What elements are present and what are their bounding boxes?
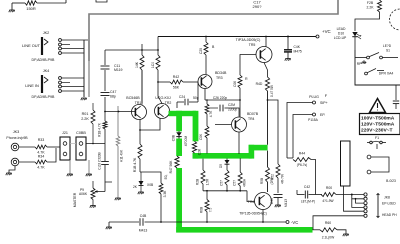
wire C10 gnd xyxy=(287,53,289,59)
gray bus vertical left xyxy=(88,40,90,97)
svg-text:TR5: TR5 xyxy=(249,43,256,47)
jack pin2 xyxy=(364,197,367,200)
ground line-in bus xyxy=(81,98,87,100)
pin 2 xyxy=(59,81,62,84)
wire to J21 xyxy=(47,146,60,148)
resistor R50 xyxy=(205,37,207,43)
node rail TR5 xyxy=(265,36,267,38)
svg-text:LEAD: LEAD xyxy=(337,27,346,31)
ground C35 xyxy=(277,198,279,205)
J21 pin B xyxy=(63,152,67,156)
wire cap drop xyxy=(176,102,178,108)
svg-text:Phone-in/p9B: Phone-in/p9B xyxy=(6,136,28,140)
svg-text:JK4: JK4 xyxy=(43,69,50,73)
svg-text:J21: J21 xyxy=(62,131,68,135)
svg-text:C42: C42 xyxy=(304,185,310,189)
wire R60 left xyxy=(313,229,321,231)
node r40 xyxy=(157,49,159,51)
jack bracket xyxy=(377,194,379,218)
svg-text:RP: RP xyxy=(357,62,361,66)
ground C10 xyxy=(285,59,291,61)
svg-text:DP,AD9B-P9B: DP,AD9B-P9B xyxy=(32,95,56,99)
gray bus wire xyxy=(89,0,338,61)
svg-text:BC546B: BC546B xyxy=(126,96,140,100)
wire R52 down xyxy=(277,178,279,193)
svg-text:LCD-UP: LCD-UP xyxy=(334,36,347,40)
LED D10 xyxy=(352,32,357,37)
svg-text:D10: D10 xyxy=(338,32,344,36)
svg-text:EP.: EP. xyxy=(320,113,325,117)
resistor R01 xyxy=(91,110,95,124)
jack pin3 xyxy=(364,202,367,205)
svg-text:R33: R33 xyxy=(38,138,45,142)
diode D8 on green xyxy=(178,130,180,133)
svg-text:H11 49K: H11 49K xyxy=(120,149,124,162)
switch S2 xyxy=(365,72,368,75)
svg-text:R01: R01 xyxy=(82,112,89,116)
node rail C10 xyxy=(287,36,289,38)
switch S1 xyxy=(355,57,367,59)
svg-text:2.2K: 2.2K xyxy=(367,6,375,10)
svg-text:R34: R34 xyxy=(38,155,45,159)
wire bus down xyxy=(83,40,85,97)
wire rail riser xyxy=(157,37,159,51)
wire TR1 collector xyxy=(141,70,143,105)
svg-text:-VC: -VC xyxy=(291,220,298,225)
lamp dashed circle xyxy=(390,9,400,30)
svg-text:56K: 56K xyxy=(173,86,180,90)
node j2 xyxy=(355,198,357,200)
wire jp5 xyxy=(344,186,365,211)
pot wiper xyxy=(95,191,99,193)
transistor TR3 xyxy=(198,75,212,89)
voltage rating box xyxy=(360,114,400,135)
resistor R42 xyxy=(170,80,183,84)
svg-text:TIP3A-0D05(C): TIP3A-0D05(C) xyxy=(236,38,261,42)
svg-text:C06: C06 xyxy=(233,81,237,87)
mains terminal 1 xyxy=(367,155,371,159)
wire pin4 xyxy=(62,52,84,54)
gray drop C0BB xyxy=(88,160,90,174)
jack pin5 xyxy=(364,210,367,213)
svg-text:BD07B: BD07B xyxy=(247,112,259,116)
node bb1 xyxy=(206,190,208,192)
svg-text:100V~T500mA: 100V~T500mA xyxy=(361,116,395,122)
highlight green middle bar upper xyxy=(249,145,268,151)
wire wiper xyxy=(99,191,105,193)
pin 1 xyxy=(59,77,62,80)
terminal +VC xyxy=(316,35,319,38)
wire cap left xyxy=(177,101,184,103)
svg-text:JK2: JK2 xyxy=(43,31,50,35)
svg-text:B-0/23: B-0/23 xyxy=(386,179,396,183)
wire bottom up xyxy=(47,148,56,162)
highlight green left vertical xyxy=(176,111,182,132)
svg-text:M119: M119 xyxy=(114,68,123,72)
svg-text:M413: M413 xyxy=(139,229,148,233)
fuse F1 xyxy=(367,142,370,144)
svg-text:C35: C35 xyxy=(270,198,274,204)
node y82 xyxy=(157,81,159,83)
wire R45 down xyxy=(160,194,162,222)
wire TR3 emitter down xyxy=(197,82,199,102)
capacitor C32 xyxy=(101,162,109,165)
wire fuse down xyxy=(376,144,378,149)
wire cap right xyxy=(189,101,198,103)
capacitor C35 xyxy=(274,195,283,198)
svg-text:M475: M475 xyxy=(294,50,302,54)
svg-text:TR3: TR3 xyxy=(216,76,223,80)
highlight green step xyxy=(249,145,255,159)
svg-text:E0,: E0, xyxy=(164,174,168,179)
wire to ground xyxy=(11,3,13,10)
svg-text:R1B 4.7K: R1B 4.7K xyxy=(98,122,102,137)
svg-text:4700M: 4700M xyxy=(184,136,188,147)
wire to jack xyxy=(336,194,364,196)
svg-text:1C0: 1C0 xyxy=(151,62,155,68)
resistor R59 xyxy=(239,158,241,172)
wire col203 top xyxy=(202,159,204,170)
wire pin1 xyxy=(62,39,88,41)
wire F2B down xyxy=(355,12,380,31)
wire C0BB right xyxy=(86,143,105,145)
plug arrow 2 xyxy=(44,77,48,83)
resistor F2B xyxy=(378,0,382,12)
svg-text:TR6: TR6 xyxy=(248,200,255,204)
svg-text:68p: 68p xyxy=(110,95,116,99)
wire to TR6 base xyxy=(247,191,255,202)
svg-text:EP-L0ED: EP-L0ED xyxy=(382,202,396,206)
wire C42-R00 xyxy=(309,194,323,196)
connector C0BB box xyxy=(76,137,86,160)
resistor R52 xyxy=(276,164,280,178)
C0BB pin A xyxy=(79,142,83,146)
ground pot xyxy=(90,206,96,208)
svg-text:4R-7W: 4R-7W xyxy=(281,174,285,184)
svg-text:R0B: R0B xyxy=(200,207,204,213)
wire pin2 xyxy=(62,82,70,84)
pin 1 xyxy=(59,39,62,42)
svg-text:R44: R44 xyxy=(299,152,305,156)
gray drop J21 xyxy=(69,160,71,174)
wire to TR6 xyxy=(267,182,269,192)
wire pin2 xyxy=(62,44,70,46)
resistor R5B xyxy=(266,167,270,182)
node bb3 xyxy=(239,190,241,192)
svg-text:C0BB: C0BB xyxy=(76,131,86,135)
svg-text:14K: 14K xyxy=(135,61,139,68)
svg-text:M413: M413 xyxy=(284,199,288,207)
resistor R47 on green xyxy=(175,156,179,168)
svg-text:C47: C47 xyxy=(110,90,116,94)
wire C42 drop xyxy=(296,190,298,195)
resistor R60 xyxy=(320,228,337,232)
wire TR5 base xyxy=(240,55,256,76)
svg-text:X0B: X0B xyxy=(147,183,154,187)
wire EP xyxy=(293,115,313,159)
svg-text:LE?D: LE?D xyxy=(383,44,392,48)
connector J21 box xyxy=(60,137,70,160)
wire bias top xyxy=(206,100,208,104)
node base col xyxy=(104,111,106,113)
wire jp4 xyxy=(352,199,364,208)
wire pin4 xyxy=(62,90,84,92)
wire between boxes xyxy=(70,143,76,145)
svg-text:DP,AD9B-P9B: DP,AD9B-P9B xyxy=(32,58,56,62)
svg-text:DPR XA4: DPR XA4 xyxy=(379,72,394,76)
gray wire volume xyxy=(117,106,119,136)
ground volume xyxy=(115,198,121,200)
connector JK4 bar xyxy=(41,75,43,93)
stub right col xyxy=(105,181,112,183)
switch box xyxy=(355,50,400,85)
svg-text:0.47 5W: 0.47 5W xyxy=(270,85,274,97)
wire TR2 emitter xyxy=(140,118,160,130)
svg-text:4.7K: 4.7K xyxy=(209,110,213,117)
ground D7 xyxy=(138,192,144,194)
svg-text:1.5R: 1.5R xyxy=(206,178,210,185)
connector JK2 bar xyxy=(41,37,43,55)
wire TR2 collector xyxy=(157,82,159,96)
wire coupling xyxy=(105,49,158,51)
mains inlet xyxy=(395,85,397,100)
wire jp2 xyxy=(352,195,364,199)
svg-text:2.1L(0W: 2.1L(0W xyxy=(322,236,335,240)
wire C10 xyxy=(287,37,289,50)
wire TR5 collector xyxy=(265,37,267,48)
svg-text:120V~T500mA: 120V~T500mA xyxy=(361,122,395,128)
resistor R12 xyxy=(205,104,209,114)
ground sw xyxy=(363,60,365,62)
resistor 150R xyxy=(25,1,37,5)
diode D7 xyxy=(140,172,142,181)
svg-text:LINE IN: LINE IN xyxy=(25,83,39,88)
resistor R44h xyxy=(293,158,311,162)
wire TR1 emitter xyxy=(139,119,141,130)
transistor TR1 xyxy=(132,105,147,120)
svg-text:R4D: R4D xyxy=(256,82,263,86)
wire base bus xyxy=(203,190,247,192)
ground C4B left xyxy=(108,222,110,227)
box corner top xyxy=(96,0,107,2)
pin 4 xyxy=(59,52,62,55)
svg-text:C0K: C0K xyxy=(199,133,203,140)
wire c2m left xyxy=(207,107,218,109)
wire -VC xyxy=(145,221,287,223)
svg-text:MASTER: MASTER xyxy=(73,192,77,207)
resistor R1B col xyxy=(103,121,107,129)
svg-text:A06K: A06K xyxy=(79,192,88,196)
node j1 xyxy=(351,194,353,196)
resistor R61 xyxy=(206,191,208,200)
svg-text:+VC: +VC xyxy=(322,29,331,34)
pin 3 xyxy=(59,85,62,88)
svg-text:C4K: C4K xyxy=(294,45,301,49)
node207 xyxy=(206,221,208,223)
svg-text:F1: F1 xyxy=(375,136,379,140)
wire out 194 xyxy=(297,194,305,196)
ground C0BB xyxy=(86,174,92,176)
wire TR1 base xyxy=(105,111,135,113)
jack pin1 xyxy=(364,193,367,196)
capacitor C2M xyxy=(220,105,223,112)
capacitor C10 xyxy=(284,50,292,52)
svg-text:4R0A: 4R0A xyxy=(243,178,247,187)
svg-text:C4B: C4B xyxy=(140,214,147,218)
capacitor C47 68p xyxy=(101,93,110,96)
wire driver xyxy=(226,158,228,160)
svg-text:4?1-9W: 4?1-9W xyxy=(322,199,333,203)
wire top-left feedback xyxy=(12,2,25,4)
node r38 xyxy=(141,49,143,51)
wire TR6 emitter xyxy=(262,210,264,223)
svg-text:UCO-K0J: UCO-K0J xyxy=(155,96,171,100)
resistor R38 xyxy=(141,44,143,55)
transistor TR4 xyxy=(232,117,247,132)
resistor H11 gray xyxy=(116,136,120,146)
pin 2 xyxy=(59,43,62,46)
wire jp6 xyxy=(313,216,364,230)
svg-text:?.5: ?.5 xyxy=(209,208,213,213)
ground J21 xyxy=(67,174,73,176)
node rail TR3 xyxy=(205,36,207,38)
wire TR3 emitter down xyxy=(204,89,206,101)
transistor TR5 xyxy=(256,47,272,63)
node263 xyxy=(262,221,264,223)
svg-text:R52: R52 xyxy=(271,174,275,180)
svg-text:D5: D5 xyxy=(219,164,223,168)
wire R60 right xyxy=(337,230,346,234)
pin 3 xyxy=(59,47,62,50)
wire driver down xyxy=(226,185,228,191)
wire col203 down xyxy=(202,184,204,191)
wire bias mid xyxy=(206,114,208,126)
pin 4 xyxy=(59,90,62,93)
wire TR3 horizontal xyxy=(205,99,240,101)
svg-text:R1B 4.7K: R1B 4.7K xyxy=(133,157,137,172)
resistor R34 xyxy=(35,160,47,164)
svg-text:R00: R00 xyxy=(326,186,332,190)
svg-text:HEAD PH: HEAD PH xyxy=(382,213,397,217)
wire rail 278 xyxy=(268,100,279,164)
svg-text:C57: C57 xyxy=(220,180,224,186)
resistor R57 xyxy=(225,170,229,185)
node161 xyxy=(160,221,162,223)
svg-text:PLUG: PLUG xyxy=(309,95,319,99)
terminal -VC xyxy=(286,221,289,224)
svg-text:R47 56K: R47 56K xyxy=(169,160,173,174)
pot P9 xyxy=(91,188,95,200)
svg-text:4.7K: 4.7K xyxy=(37,166,45,170)
svg-text:TR4: TR4 xyxy=(248,117,255,121)
transistor TR2 xyxy=(155,104,170,119)
node c0bb xyxy=(92,143,94,145)
wire pin1 xyxy=(62,77,84,79)
plug arrow xyxy=(44,39,48,45)
resistor R45 xyxy=(159,183,163,194)
svg-text:290?: 290? xyxy=(253,4,263,9)
resistor R00h xyxy=(321,193,336,197)
svg-text:C24: C24 xyxy=(179,95,185,99)
highlight green top bar xyxy=(169,111,197,116)
C0BB pin B xyxy=(79,152,83,156)
wire base TR3 xyxy=(158,81,170,83)
svg-text:C20: C20 xyxy=(199,48,203,54)
svg-text:SIP+: SIP+ xyxy=(320,101,328,105)
highlight green right vertical xyxy=(193,111,199,142)
svg-text:JK3: JK3 xyxy=(13,130,20,134)
svg-text:LINE OUT: LINE OUT xyxy=(22,43,41,48)
capacitor C24 50p xyxy=(185,99,188,105)
svg-text:R60: R60 xyxy=(325,221,331,225)
svg-text:C0B: C0B xyxy=(172,134,176,141)
jack ground wire xyxy=(9,166,15,173)
ground jack xyxy=(6,173,12,175)
svg-text:R42: R42 xyxy=(173,75,179,79)
wire input column xyxy=(104,50,106,65)
mains terminal 2 xyxy=(367,170,371,174)
svg-text:C26 220p: C26 220p xyxy=(213,96,227,100)
jack JK3 top xyxy=(11,143,19,151)
node emitters xyxy=(139,129,141,131)
wire to TR3 base xyxy=(183,81,198,83)
resistor R13 xyxy=(205,126,209,138)
svg-text:R2B: R2B xyxy=(196,179,200,185)
wire R44v down xyxy=(239,88,241,100)
wire c2m right xyxy=(225,108,240,117)
svg-text:BD34B: BD34B xyxy=(215,71,227,75)
wire jack bottom xyxy=(19,161,35,163)
svg-text:F2B: F2B xyxy=(367,1,374,5)
wire TR5 emitter xyxy=(264,63,268,71)
LED arrows xyxy=(357,34,361,37)
svg-text:R5B: R5B xyxy=(260,178,264,184)
ground xyxy=(9,10,15,12)
warning triangle xyxy=(370,99,386,113)
resistor R48 on green xyxy=(192,141,196,153)
node bias xyxy=(206,99,208,101)
jack pin4 xyxy=(364,206,367,209)
wire pin3 xyxy=(62,86,84,88)
svg-text:3.3K: 3.3K xyxy=(163,190,167,198)
wire output rail xyxy=(267,91,269,145)
jack JK3 bottom xyxy=(11,158,19,166)
wire -VC left xyxy=(109,221,139,223)
wire jog xyxy=(140,172,161,183)
resistor R44v xyxy=(238,75,242,88)
wire jp3 xyxy=(356,199,365,203)
resistor R1B xyxy=(139,130,141,144)
rail +VC xyxy=(158,36,316,38)
svg-text:JK8: JK8 xyxy=(384,196,390,200)
node TR3 xyxy=(239,99,241,101)
wire pin3 xyxy=(62,48,84,50)
ground R60 xyxy=(343,234,349,236)
wire m1 xyxy=(371,157,389,172)
wire TR4 base xyxy=(215,124,232,126)
node 278 xyxy=(267,99,269,101)
terminal EP xyxy=(313,113,316,116)
node stub top xyxy=(65,0,67,3)
highlight green bottom bar xyxy=(176,227,312,233)
svg-text:L87,(M-P): L87,(M-P) xyxy=(301,200,315,204)
svg-text:C2K: C2K xyxy=(198,148,202,155)
wire R44h right xyxy=(311,160,316,195)
diode D5 xyxy=(226,159,228,160)
resistor R40 xyxy=(157,50,159,55)
svg-text:C5?: C5? xyxy=(233,180,237,186)
terminal SIP xyxy=(313,101,316,104)
